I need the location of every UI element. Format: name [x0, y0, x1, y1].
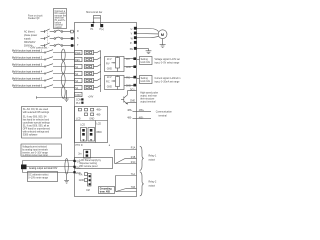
- svg-text:PTO D: PTO D: [76, 145, 83, 147]
- svg-text:Grounding: Grounding: [100, 189, 112, 191]
- text box S terminals note: [22, 107, 62, 139]
- FIV note text: [155, 58, 181, 64]
- FIC note text: [155, 77, 182, 83]
- svg-text:LCD: LCD: [76, 118, 81, 120]
- svg-text:485+: 485+: [139, 110, 145, 112]
- svg-text:T1A: T1A: [131, 173, 136, 176]
- svg-text:Multi-function input terminal: Multi-function input terminal 3: [12, 64, 43, 67]
- svg-text:terminal: terminal: [159, 114, 168, 117]
- svg-text:Setting: Setting: [141, 58, 149, 61]
- svg-text:485+: 485+: [127, 110, 133, 112]
- GND wire: [23, 169, 75, 172]
- motor wires: [137, 29, 159, 32]
- svg-text:+24V: +24V: [88, 97, 94, 99]
- svg-text:2m: 2m: [78, 154, 81, 156]
- terminal PE: [134, 47, 137, 50]
- terminal P-: [134, 41, 137, 44]
- svg-text:T1B: T1B: [131, 187, 136, 189]
- svg-text:FIV: FIV: [106, 63, 110, 65]
- terminal V: [134, 32, 137, 35]
- svg-text:10 V: 10 V: [107, 59, 112, 61]
- svg-text:REV: REV: [75, 60, 80, 62]
- svg-text:485-: 485-: [139, 117, 144, 119]
- terminal U: [134, 27, 137, 30]
- CME wire: [128, 103, 137, 105]
- svg-text:0~10V meter range: 0~10V meter range: [28, 177, 48, 180]
- FIC external wire: [137, 78, 140, 80]
- label: fuse or breaker: [28, 15, 43, 21]
- relay 2 output: [116, 173, 137, 192]
- svg-text:R1B: R1B: [131, 157, 136, 159]
- svg-text:Communication: Communication: [156, 110, 173, 113]
- keypad display labels: [97, 124, 103, 134]
- svg-text:8800: 8800: [97, 132, 103, 134]
- transistor Q1 high speed pulse output: [121, 91, 128, 105]
- svg-text:OFF hand be unperformed: OFF hand be unperformed: [23, 127, 51, 130]
- svg-text:knob 10k: knob 10k: [141, 62, 151, 64]
- relay 1 brace: [140, 146, 144, 170]
- svg-text:Multi-function input terminal: Multi-function input terminal 6: [12, 85, 43, 88]
- communication terminal text: [156, 110, 173, 117]
- svg-text:breaker QF: breaker QF: [28, 17, 40, 20]
- svg-text:GND: GND: [89, 118, 94, 120]
- svg-text:LCD: LCD: [97, 124, 102, 126]
- FIC potentiometer box: [105, 76, 125, 90]
- svg-text:S306 software: S306 software: [23, 133, 38, 136]
- note box (DC reactor note): [54, 9, 67, 29]
- keyboard connector 1: [81, 128, 87, 142]
- panel supply text box: [75, 158, 113, 169]
- svg-text:DC voltmeter select: DC voltmeter select: [28, 173, 48, 176]
- switch linkage (dashed): [47, 30, 49, 45]
- svg-text:S1~S4: ON, S1 are used: S1~S4: ON, S1 are used: [23, 108, 49, 111]
- svg-text:by analog input terminals: by analog input terminals: [22, 148, 48, 151]
- svg-text:COM: COM: [76, 99, 81, 101]
- svg-text:4~20mA current set input: 4~20mA current set input: [22, 154, 48, 157]
- terminal FIC: [124, 76, 137, 80]
- svg-text:Short-circuit bar: Short-circuit bar: [86, 11, 102, 14]
- communication 485+: [127, 110, 151, 112]
- svg-text:term. 485: term. 485: [100, 191, 111, 194]
- svg-text:Multi-function input terminal: Multi-function input terminal 4: [12, 71, 43, 74]
- input row 5 S3: [12, 78, 101, 83]
- svg-text:380V/220V: 380V/220V: [24, 42, 36, 44]
- svg-text:Voltage/current selected: Voltage/current selected: [22, 145, 47, 148]
- svg-text:GND: GND: [126, 67, 131, 69]
- communication 485-: [127, 117, 151, 119]
- short-circuit bar between P1 and P(+): [94, 16, 101, 25]
- internal input bus: [100, 51, 102, 92]
- svg-text:485+: 485+: [96, 110, 102, 112]
- svg-text:output: output: [149, 184, 156, 187]
- svg-text:Multi-function input terminal: Multi-function input terminal 1: [12, 50, 43, 53]
- dark note box bottom: [99, 187, 115, 194]
- input row 2 REV: [12, 57, 101, 62]
- terminal GND: [124, 65, 137, 69]
- FIC setting box: [140, 76, 153, 84]
- svg-text:FOV: FOV: [76, 162, 81, 164]
- svg-text:phase power: phase power: [24, 34, 37, 37]
- PG input labels: [79, 173, 88, 183]
- motor M1: [158, 30, 167, 39]
- svg-text:485-: 485-: [127, 117, 132, 119]
- wire S: [41, 36, 75, 40]
- svg-text:with selected F05 settings: with selected F05 settings: [23, 111, 50, 114]
- analog meter note box: [28, 172, 58, 182]
- input row 6 S4: [12, 85, 101, 90]
- svg-text:coordinate special settings: coordinate special settings: [23, 121, 51, 124]
- caption PTO: [76, 145, 111, 147]
- shield ellipse 3: [61, 74, 65, 86]
- svg-text:PIN remote panel: PIN remote panel: [80, 165, 98, 168]
- 485 terminal squares: [76, 108, 95, 120]
- relay 1 output: [115, 147, 137, 164]
- svg-text:P-: P-: [130, 43, 133, 45]
- shield ellipse 1: [61, 49, 65, 61]
- interior 24V/COM labels: [76, 98, 84, 105]
- svg-text:FIA: FIA: [79, 173, 83, 176]
- svg-text:10 V: 10 V: [107, 77, 112, 79]
- svg-text:Multi-function input terminal: Multi-function input terminal 2: [12, 57, 43, 60]
- inverter main box U1: [75, 23, 137, 197]
- shield ground: [64, 90, 69, 101]
- input row 1 FWD: [12, 50, 101, 55]
- svg-text:R1C: R1C: [131, 162, 136, 164]
- svg-text:dispenser setting: dispenser setting: [80, 162, 98, 165]
- svg-text:Multi-function input terminal: Multi-function input terminal 5: [12, 78, 43, 81]
- FIV setting box: [140, 57, 153, 65]
- svg-text:GND: GND: [107, 86, 112, 88]
- motor ground: [160, 39, 166, 48]
- wire T: [41, 43, 75, 47]
- terminal P(+): [100, 24, 103, 27]
- svg-text:output terminal: output terminal: [140, 101, 156, 104]
- svg-text:output, and max: output, and max: [140, 95, 157, 98]
- svg-text:reactor: reactor: [55, 26, 62, 29]
- svg-text:FIC: FIC: [106, 81, 110, 83]
- svg-text:R1A: R1A: [131, 147, 136, 150]
- shield ellipse 4: [61, 86, 65, 98]
- analog shield ground: [64, 174, 69, 183]
- svg-text:P(+): P(+): [100, 29, 105, 31]
- FOV wire: [23, 161, 75, 165]
- svg-text:S1, if and S06, S05, all as: S1, if and S06, S05, all as: [23, 125, 50, 127]
- svg-text:output: output: [149, 159, 156, 162]
- svg-text:with selected settings and: with selected settings and: [23, 130, 50, 133]
- svg-text:has hand be selected and: has hand be selected and: [23, 118, 50, 121]
- svg-text:GND: GND: [79, 180, 84, 182]
- svg-text:AC (three): AC (three): [24, 31, 35, 34]
- relay 2 brace: [140, 172, 144, 196]
- svg-text:Setting: Setting: [141, 77, 149, 80]
- svg-text:CM: CM: [86, 190, 90, 192]
- input row 4 S2: [12, 71, 101, 76]
- connector 3: [78, 150, 90, 159]
- svg-text:485-: 485-: [96, 114, 101, 116]
- relay 1 text: [149, 156, 158, 162]
- FIV potentiometer box: [105, 57, 125, 72]
- svg-text:knob 10k: knob 10k: [141, 81, 151, 83]
- svg-text:their structure: their structure: [140, 98, 155, 101]
- svg-text:input, 0~5V select range: input, 0~5V select range: [155, 61, 181, 64]
- svg-text:PE: PE: [130, 49, 134, 51]
- text: AC power supply: [24, 31, 37, 48]
- FOC wire: [27, 166, 75, 168]
- terminal W: [134, 36, 137, 39]
- junction dot on top edge: [93, 22, 95, 24]
- svg-text:COM: COM: [75, 95, 80, 97]
- shield ellipse 2: [61, 62, 65, 74]
- svg-text:LCD: LCD: [80, 125, 85, 127]
- svg-text:FWD: FWD: [75, 53, 81, 55]
- high speed pulse text: [140, 93, 158, 104]
- svg-text:Current signal 4~20mA in: Current signal 4~20mA in: [155, 77, 182, 80]
- input row 3 S1: [12, 64, 101, 69]
- svg-text:Analog output terminal FOV: Analog output terminal FOV: [29, 167, 58, 170]
- svg-text:FOC: FOC: [76, 168, 81, 170]
- keyboard terminal box: [75, 107, 108, 143]
- svg-text:Relay 1: Relay 1: [149, 156, 158, 158]
- svg-text:S1, if any S06, S05, S4: S1, if any S06, S05, S4: [23, 116, 47, 118]
- terminal FIV: [124, 57, 137, 61]
- DO1 wire: [128, 90, 137, 92]
- svg-text:Relay 2: Relay 2: [149, 181, 158, 183]
- meter block: [21, 165, 27, 170]
- terminal P1: [91, 24, 94, 27]
- PG connector: [88, 174, 92, 187]
- svg-text:High speed pulse: High speed pulse: [140, 93, 158, 95]
- terminal squares analog: [73, 160, 75, 162]
- svg-text:input, 0~20mA set range: input, 0~20mA set range: [155, 80, 181, 83]
- svg-text:FIV: FIV: [126, 59, 130, 61]
- svg-text:GND: GND: [107, 68, 112, 70]
- keyboard connector 2: [88, 128, 95, 142]
- svg-text:supply: supply: [24, 39, 31, 41]
- text box analog note: [21, 144, 61, 157]
- COM row: [37, 92, 94, 99]
- shield ellipse analog: [65, 159, 68, 174]
- terminal GND 2: [124, 84, 137, 88]
- svg-text:PLC: PLC: [76, 103, 81, 105]
- PE ground: [137, 49, 152, 54]
- relay 2 text: [149, 181, 158, 187]
- svg-text:Voltage signal 0~10V set: Voltage signal 0~10V set: [155, 58, 181, 61]
- FIV external wire: [137, 59, 140, 61]
- svg-text:- +24V control dist. -: - +24V control dist. -: [29, 47, 50, 50]
- wire R: [41, 29, 75, 33]
- svg-text:LCD Panel supply by: LCD Panel supply by: [80, 160, 102, 162]
